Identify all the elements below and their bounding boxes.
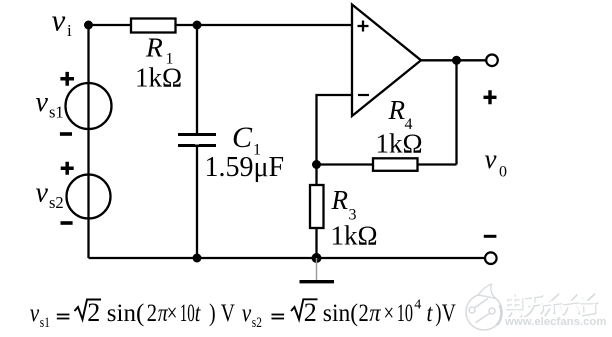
op-amp U1 bbox=[352, 5, 421, 117]
svg-text:R: R bbox=[145, 32, 163, 63]
svg-text:10: 10 bbox=[180, 300, 195, 327]
node C (R3 top) bbox=[312, 160, 321, 169]
svg-text:): ) bbox=[209, 299, 216, 327]
svg-text:0: 0 bbox=[499, 164, 507, 181]
svg-text:10: 10 bbox=[397, 298, 413, 326]
node output bbox=[452, 56, 461, 65]
svg-text:s2: s2 bbox=[252, 314, 262, 331]
svg-text:C: C bbox=[232, 121, 253, 154]
minus sign vs1 bbox=[60, 132, 72, 136]
plus sign output bbox=[484, 90, 497, 104]
svg-text:V: V bbox=[221, 299, 235, 327]
svg-text:×: × bbox=[384, 298, 395, 326]
svg-text:t: t bbox=[427, 299, 433, 327]
svg-text:v: v bbox=[36, 178, 49, 209]
minus sign output bbox=[484, 235, 497, 238]
svg-text:v: v bbox=[242, 299, 252, 327]
svg-text:1.59μF: 1.59μF bbox=[205, 152, 285, 183]
svg-text:1kΩ: 1kΩ bbox=[331, 221, 378, 251]
plus sign vs1 bbox=[60, 72, 74, 86]
svg-text:v: v bbox=[52, 3, 66, 38]
terminal vo plus bbox=[486, 55, 498, 67]
svg-text:R: R bbox=[388, 95, 406, 125]
source vs2 bbox=[67, 175, 111, 219]
node B (C1 bottom) bbox=[193, 254, 202, 263]
wire op-amp output bbox=[421, 59, 486, 61]
svg-text:sin(: sin( bbox=[107, 300, 145, 327]
source vs1 bbox=[66, 83, 112, 129]
resistor R3 bbox=[315, 165, 317, 259]
svg-text:×: × bbox=[167, 298, 178, 326]
wire left rail bbox=[87, 25, 89, 258]
wire feedback right bbox=[455, 60, 457, 164]
svg-text:i: i bbox=[67, 21, 72, 40]
svg-text:): ) bbox=[435, 298, 441, 326]
svg-text:www.elecfans.com: www.elecfans.com bbox=[504, 316, 607, 328]
resistor R1 bbox=[131, 19, 176, 33]
svg-text:2: 2 bbox=[147, 299, 157, 326]
node vi bbox=[84, 21, 93, 30]
wire inverting input bbox=[317, 95, 353, 165]
terminal vo minus bbox=[485, 252, 497, 264]
svg-text:s1: s1 bbox=[40, 314, 50, 331]
svg-text:v: v bbox=[36, 87, 49, 118]
svg-text:t: t bbox=[195, 299, 201, 327]
minus sign vs2 bbox=[61, 221, 73, 225]
plus sign vs2 bbox=[61, 162, 74, 175]
watermark chinese text bbox=[506, 293, 597, 316]
capacitor C1 bbox=[178, 135, 216, 146]
svg-text:s2: s2 bbox=[49, 193, 64, 212]
svg-text:4: 4 bbox=[414, 298, 421, 313]
resistor R4 bbox=[373, 158, 418, 171]
svg-text:v: v bbox=[485, 144, 497, 174]
svg-text:v: v bbox=[30, 299, 40, 327]
node D (ground) bbox=[312, 253, 322, 263]
op-amp minus input mark bbox=[358, 94, 369, 96]
wire bottom rail bbox=[89, 257, 485, 259]
svg-text:s1: s1 bbox=[49, 103, 64, 122]
ground bbox=[316, 258, 318, 281]
wire feedback bottom bbox=[317, 163, 457, 165]
svg-text:1kΩ: 1kΩ bbox=[376, 129, 423, 159]
svg-text:2: 2 bbox=[87, 298, 100, 327]
equation vs2 part bbox=[242, 298, 456, 331]
svg-text:V: V bbox=[442, 299, 456, 327]
op-amp plus input mark bbox=[358, 21, 369, 32]
svg-text:1kΩ: 1kΩ bbox=[135, 63, 182, 93]
svg-text:π: π bbox=[369, 300, 381, 327]
svg-text:sin(: sin( bbox=[323, 299, 358, 327]
equation vs1 part bbox=[30, 298, 235, 330]
svg-text:2: 2 bbox=[304, 298, 317, 327]
svg-text:2: 2 bbox=[359, 299, 369, 326]
svg-text:R: R bbox=[331, 185, 349, 215]
wire top rail bbox=[89, 24, 353, 26]
node A (R1 right / C1 top) bbox=[193, 21, 202, 30]
wire C1 branch bbox=[196, 25, 198, 258]
watermark logo bbox=[466, 284, 502, 330]
